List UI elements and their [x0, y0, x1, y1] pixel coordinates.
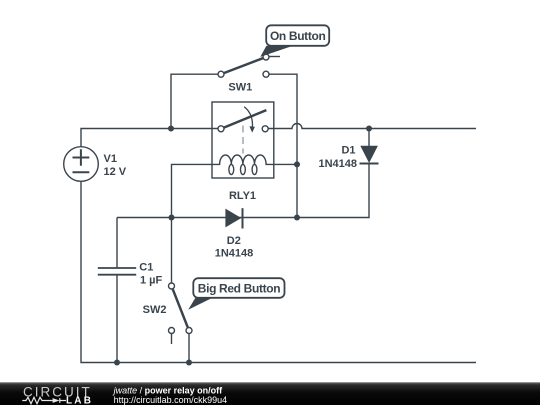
capacitor C1: [98, 268, 136, 275]
svg-text:SW2: SW2: [143, 304, 167, 316]
voltage source V1: [64, 147, 99, 182]
svg-text:D1: D1: [341, 145, 355, 157]
svg-text:V1: V1: [104, 153, 117, 165]
wire D2 row: [117, 217, 297, 219]
wire D1 branch: [297, 129, 369, 218]
svg-text:12 V: 12 V: [104, 166, 127, 178]
node junction D2 wire / coil-left / SW2: [169, 215, 175, 221]
label D1 value: [318, 145, 357, 171]
wire top rail left: V1+ up and right to relay: [81, 129, 218, 147]
relay RLY1: [212, 102, 274, 178]
footer bar: [0, 382, 540, 405]
svg-text:1N4148: 1N4148: [215, 247, 254, 259]
node junction top-rail/SW1: [168, 126, 174, 132]
diode D1: [360, 146, 379, 164]
label C1 value: [139, 261, 162, 286]
annotation On Button: [260, 25, 329, 57]
label V1 value: [104, 153, 127, 178]
wire coil right to vertical: [274, 163, 297, 165]
footer logo resistor-diode glyph: [22, 397, 66, 403]
node junction coil-right / SW1-throw vertical: [294, 161, 300, 167]
switch SW2: [169, 283, 193, 344]
svg-text:C1: C1: [139, 261, 153, 273]
wire top rail right with hop over vertical: [269, 124, 477, 129]
wire C1 branch top: [116, 218, 118, 269]
node junction top-rail/D1 anode: [366, 126, 372, 132]
svg-text:D2: D2: [227, 235, 241, 247]
wire bottom rail: [81, 181, 476, 362]
wire coil left down to SW2: [172, 164, 213, 283]
label D2 value: [215, 235, 254, 259]
svg-text:LAB: LAB: [66, 396, 93, 405]
annotation Big Red Button: [188, 278, 284, 310]
wire SW2 throw down to bottom rail: [188, 334, 190, 363]
svg-text:http://circuitlab.com/ckk99u4: http://circuitlab.com/ckk99u4: [114, 395, 228, 405]
svg-text:jwatte / power relay on/off: jwatte / power relay on/off: [113, 386, 224, 396]
node junction bottom rail / C1: [114, 360, 120, 366]
svg-text:1N4148: 1N4148: [318, 158, 357, 170]
wire SW1 right throw down to D2 row: [269, 74, 297, 217]
svg-text:RLY1: RLY1: [229, 190, 256, 202]
node junction bottom rail / SW2: [186, 360, 192, 366]
wire SW1 branch up: [171, 74, 218, 128]
switch SW1: [218, 54, 280, 77]
wire C1 bottom down: [116, 275, 118, 363]
diode D2: [225, 208, 242, 228]
svg-text:Big Red Button: Big Red Button: [198, 282, 280, 296]
svg-text:On Button: On Button: [270, 29, 326, 43]
node junction D2 wire / SW1-throw vertical: [294, 215, 300, 221]
svg-text:SW1: SW1: [228, 81, 252, 93]
svg-text:1 µF: 1 µF: [140, 274, 163, 286]
